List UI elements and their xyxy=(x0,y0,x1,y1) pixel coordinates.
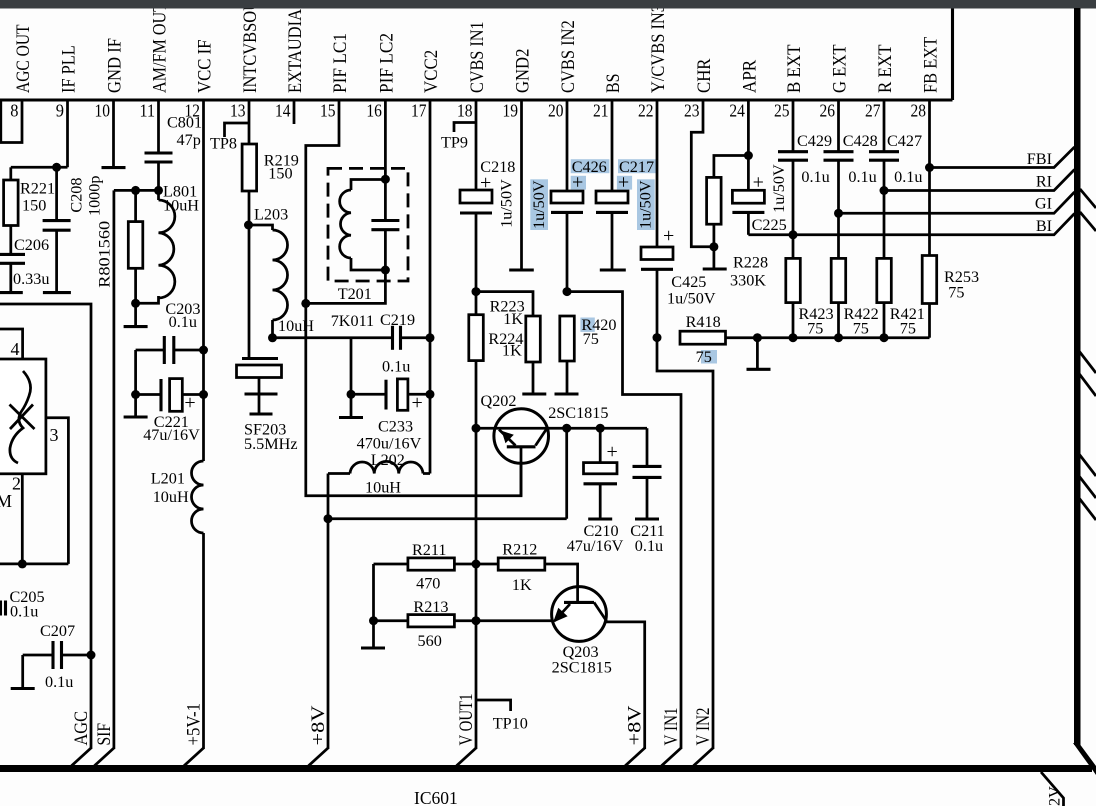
junction dot R228 bottom xyxy=(709,242,718,251)
svg-text:INTCVBSOUT: INTCVBSOUT xyxy=(240,0,261,93)
foot wire V IN2 xyxy=(694,748,714,766)
svg-text:0.1u: 0.1u xyxy=(382,358,410,376)
wire +8V to Q202 collector xyxy=(328,517,567,520)
pin 20 wire xyxy=(566,100,569,191)
wire to V IN2 xyxy=(657,338,713,749)
svg-text:14: 14 xyxy=(275,101,291,121)
pin 12 line mid xyxy=(202,350,205,461)
junction dot R211/R213 left xyxy=(369,616,378,625)
svg-text:C429: C429 xyxy=(797,132,832,150)
pin 25 wire B EXT xyxy=(792,100,795,152)
svg-text:2SC1815: 2SC1815 xyxy=(548,404,608,422)
foot wire SIF xyxy=(94,748,114,766)
pin 15 wire loop to Q202 base xyxy=(306,100,521,496)
junction dot R418 right xyxy=(753,333,762,342)
junction dot C210 top xyxy=(596,424,605,433)
svg-text:CVBS IN1: CVBS IN1 xyxy=(467,22,488,94)
pin 18 wire xyxy=(475,100,478,190)
ground C221 left xyxy=(134,395,137,416)
BI wire xyxy=(748,214,1074,235)
resistor R423 75 xyxy=(786,258,801,302)
svg-text:47u/16V: 47u/16V xyxy=(143,426,200,444)
ground C207 xyxy=(21,655,24,687)
junction dot Q202 emitter/pin18 xyxy=(472,424,481,433)
capacitor C208 1000p xyxy=(55,167,58,220)
Q203 collector stem xyxy=(576,586,579,602)
svg-text:19: 19 xyxy=(503,101,519,121)
foot wire +8V xyxy=(309,748,329,766)
pin 20 line below C426 xyxy=(566,212,569,291)
svg-text:10uH: 10uH xyxy=(163,197,199,215)
svg-text:C425: C425 xyxy=(671,273,706,291)
bus hatch group A xyxy=(1079,351,1096,373)
svg-text:0.1u: 0.1u xyxy=(848,168,876,186)
wire pin20 to V IN1 xyxy=(567,292,681,749)
svg-text:470u/16V: 470u/16V xyxy=(357,435,422,453)
pin 13 wire xyxy=(248,100,251,144)
Q203 emitter diagonal with arrow xyxy=(555,604,571,621)
svg-text:0.1u: 0.1u xyxy=(10,603,38,621)
svg-text:75: 75 xyxy=(807,320,823,338)
capacitor C429 0.1u xyxy=(778,150,808,153)
foot wire +8V xyxy=(625,748,645,766)
transformer T201 dashed enclosure xyxy=(328,168,408,281)
junction dot pin2/pin3 xyxy=(18,559,27,568)
svg-text:BI: BI xyxy=(1036,217,1052,235)
svg-text:Q202: Q202 xyxy=(481,392,517,410)
svg-text:75: 75 xyxy=(900,320,916,338)
svg-text:+8V: +8V xyxy=(626,705,646,746)
svg-text:13: 13 xyxy=(230,101,246,121)
svg-text:C206: C206 xyxy=(14,236,49,254)
svg-text:R EXT: R EXT xyxy=(875,44,896,93)
svg-text:+: + xyxy=(618,172,629,194)
svg-text:+8V: +8V xyxy=(309,705,329,746)
svg-text:47p: 47p xyxy=(177,131,201,149)
pin 22 wire xyxy=(656,100,659,247)
bus bottom thick diagonal xyxy=(1076,742,1096,769)
V OUT1 line TP10 xyxy=(476,700,511,711)
junction dot C207/AGC xyxy=(87,651,96,660)
pin 14 stub xyxy=(293,100,296,124)
top dark bar xyxy=(0,0,1096,9)
wire C203 left down to C221 xyxy=(134,350,137,395)
svg-text:IF PLL: IF PLL xyxy=(59,45,80,93)
Q203 base bar xyxy=(564,601,594,604)
svg-text:GND IF: GND IF xyxy=(105,38,126,93)
svg-text:10: 10 xyxy=(95,101,111,121)
Q203 collector diagonal xyxy=(594,602,607,621)
Q202 emitter diagonal with arrow xyxy=(499,430,516,446)
svg-text:+: + xyxy=(480,172,491,194)
pin 13 line to SF203 xyxy=(248,191,251,359)
test point TP8 xyxy=(225,123,250,137)
wire T201 bottom to pin15 line xyxy=(306,270,386,303)
inductor L801 10uH xyxy=(157,190,160,200)
foot wire V IN1 xyxy=(662,748,682,766)
resistor R228 330K xyxy=(714,156,749,178)
svg-text:AM/FM OUT: AM/FM OUT xyxy=(150,2,171,93)
pin 17 line xyxy=(429,100,432,474)
svg-text:V IN1: V IN1 xyxy=(662,708,682,746)
svg-text:GI: GI xyxy=(1035,195,1052,213)
capacitor C217 1u/50V (electrolytic) xyxy=(596,191,628,203)
pin 27 wire R EXT xyxy=(883,100,886,152)
inductor L203 10uH xyxy=(249,225,273,230)
svg-text:150: 150 xyxy=(268,165,292,183)
tuner box xyxy=(0,359,46,474)
svg-text:1000p: 1000p xyxy=(86,176,104,216)
svg-text:75: 75 xyxy=(583,330,599,348)
ground R228 xyxy=(713,247,716,268)
svg-text:25: 25 xyxy=(774,101,790,121)
svg-text:18: 18 xyxy=(457,101,473,121)
junction dot +8V rail xyxy=(324,514,333,523)
resistor R253 75 xyxy=(922,256,937,304)
junction dot C219/pin17 xyxy=(426,333,435,342)
junction dot rail/R423 xyxy=(789,333,798,342)
svg-text:24: 24 xyxy=(729,101,745,121)
svg-text:EXTAUDIA: EXTAUDIA xyxy=(285,9,306,93)
svg-text:B EXT: B EXT xyxy=(784,44,805,93)
svg-text:M: M xyxy=(0,491,12,511)
resistor R219 150 xyxy=(242,144,257,191)
resistor R420 75 xyxy=(560,316,575,361)
tuner pin2 wire xyxy=(21,474,24,564)
svg-text:SIF: SIF xyxy=(95,723,115,746)
svg-text:T201: T201 xyxy=(338,285,372,303)
junction dot C203 right xyxy=(199,346,208,355)
svg-text:17: 17 xyxy=(411,101,427,121)
svg-text:G EXT: G EXT xyxy=(830,44,851,93)
SIF wire xyxy=(113,190,116,749)
pin 18 line below C218 xyxy=(475,213,478,292)
svg-text:L203: L203 xyxy=(254,206,288,224)
capacitor C801 47p xyxy=(157,100,160,153)
svg-text:C801: C801 xyxy=(167,114,202,132)
svg-text:4: 4 xyxy=(11,339,20,359)
RI wire xyxy=(884,170,1075,191)
pin 24 wire APR xyxy=(747,100,750,156)
junction dot C208 top xyxy=(52,163,61,172)
Q202 base bar xyxy=(507,445,536,448)
svg-text:GND2: GND2 xyxy=(513,49,534,93)
capacitor C428 0.1u xyxy=(824,150,854,153)
pin 12 line lower (+5V-1) xyxy=(202,533,205,749)
bus hatch group B xyxy=(1079,454,1096,476)
svg-text:R801560: R801560 xyxy=(95,221,113,288)
svg-text:1u/50V: 1u/50V xyxy=(667,290,716,308)
svg-text:0.33u: 0.33u xyxy=(13,270,49,288)
junction dot R801 top xyxy=(131,186,140,195)
svg-text:APR: APR xyxy=(739,60,760,93)
highlight C426 xyxy=(571,159,610,173)
svg-text:1K: 1K xyxy=(503,310,523,328)
T201 bottom junction dot xyxy=(381,266,390,275)
junction dot RI/pin27 xyxy=(880,186,889,195)
wire L203 to C219 xyxy=(273,336,392,339)
junction dot L203 top xyxy=(244,221,253,230)
capacitor C427 0.1u xyxy=(869,150,899,153)
svg-text:1u/50V: 1u/50V xyxy=(530,180,548,229)
capacitor C207 0.1u xyxy=(23,654,52,657)
pin 21 wire xyxy=(611,100,614,191)
svg-text:R221: R221 xyxy=(20,180,55,198)
+8V left rail xyxy=(327,474,330,750)
svg-text:VCC2: VCC2 xyxy=(421,50,442,93)
test point TP9 xyxy=(454,123,476,133)
GI continuation diagonal xyxy=(1080,212,1096,231)
svg-text:R211: R211 xyxy=(412,541,446,559)
junction dot L801 top xyxy=(154,186,163,195)
pin 23 wire CHR xyxy=(691,100,714,247)
svg-text:+: + xyxy=(607,441,618,463)
svg-text:0.1u: 0.1u xyxy=(635,537,663,555)
T201 top junction dot xyxy=(381,175,390,184)
resistor R221 xyxy=(9,167,12,180)
Q202 base stem to pin15 wire xyxy=(520,447,523,497)
svg-text:+: + xyxy=(412,392,423,414)
svg-text:TP10: TP10 xyxy=(493,715,528,733)
junction dot GI/pin26 xyxy=(834,209,843,218)
wire node across R221/C208 (y=167) xyxy=(11,166,68,169)
svg-text:L201: L201 xyxy=(151,470,185,488)
resistor R224 1K xyxy=(476,292,533,316)
svg-text:75: 75 xyxy=(948,284,964,302)
tuner box internal squiggle xyxy=(10,371,31,463)
svg-text:PIF LC2: PIF LC2 xyxy=(376,33,397,93)
svg-text:+: + xyxy=(572,172,583,194)
svg-text:1u/50V: 1u/50V xyxy=(770,164,788,213)
junction dot C221 right xyxy=(199,390,208,399)
pin 19 ground stub xyxy=(520,100,523,269)
svg-text:560: 560 xyxy=(418,632,442,650)
T201 coil winding xyxy=(351,180,385,191)
junction dot pin24 xyxy=(744,151,753,160)
junction dot Q202 collector node xyxy=(562,424,571,433)
svg-text:AGC: AGC xyxy=(72,711,92,746)
svg-text:C233: C233 xyxy=(378,418,413,436)
foot wire +5V-1 xyxy=(184,748,204,766)
svg-text:TP9: TP9 xyxy=(441,134,468,152)
svg-text:10uH: 10uH xyxy=(365,479,401,497)
Q203 base wire xyxy=(476,619,553,622)
Q202 emitter/collector wire xyxy=(476,427,647,430)
svg-text:75: 75 xyxy=(696,348,712,366)
pin 16 wire xyxy=(384,100,387,179)
FBI wire xyxy=(930,147,1075,168)
svg-text:C427: C427 xyxy=(887,132,922,150)
pin 28 wire FB EXT xyxy=(928,100,931,256)
svg-text:V IN2: V IN2 xyxy=(694,708,714,746)
svg-text:75: 75 xyxy=(853,320,869,338)
ground C217 xyxy=(611,212,614,268)
IC601 top-right corner edge xyxy=(951,7,954,100)
capacitor C425 1u/50V (electrolytic) xyxy=(641,247,673,260)
svg-text:20: 20 xyxy=(548,101,564,121)
resistor R223 1K xyxy=(469,315,484,361)
svg-text:8: 8 xyxy=(10,101,18,121)
svg-text:330K: 330K xyxy=(730,272,766,290)
resistor R422 75 xyxy=(831,258,846,302)
svg-text:C219: C219 xyxy=(380,311,415,329)
pin 12 line upper xyxy=(202,100,205,350)
junction dot R213/pin18 xyxy=(472,616,481,625)
svg-text:IC601: IC601 xyxy=(414,788,458,806)
pin 26 wire G EXT xyxy=(837,100,840,152)
svg-text:C428: C428 xyxy=(843,132,878,150)
svg-text:10uH: 10uH xyxy=(278,317,314,335)
svg-text:1K: 1K xyxy=(502,342,522,360)
svg-text:R228: R228 xyxy=(733,254,768,272)
foot wire V OUT1 xyxy=(457,748,477,766)
svg-text:2: 2 xyxy=(12,474,21,494)
capacitor C426 1u/50V (electrolytic) xyxy=(551,191,583,203)
capacitor C218 1u/50V (electrolytic) xyxy=(460,190,492,203)
svg-text:26: 26 xyxy=(820,101,836,121)
pin 7 stub at left edge xyxy=(0,100,2,143)
ceramic filter SF203 5.5MHz xyxy=(242,357,278,360)
pin 9 wire xyxy=(66,100,69,167)
svg-text:1K: 1K xyxy=(512,576,532,594)
wire C225 to BI line xyxy=(747,212,750,234)
svg-text:23: 23 xyxy=(684,101,700,121)
svg-text:+: + xyxy=(753,172,764,194)
Q202 collector diagonal xyxy=(536,429,547,446)
junction dot R801 bottom xyxy=(131,299,140,308)
svg-text:7K011: 7K011 xyxy=(331,312,374,330)
svg-text:0.1u: 0.1u xyxy=(894,168,922,186)
highlight C217 xyxy=(618,159,657,173)
svg-text:C225: C225 xyxy=(752,216,787,234)
wire L801 bottom to R801 bottom xyxy=(136,296,159,303)
svg-text:3: 3 xyxy=(50,425,59,445)
svg-text:5.5MHz: 5.5MHz xyxy=(244,435,298,453)
RI continuation diagonal xyxy=(1080,189,1096,208)
svg-text:10uH: 10uH xyxy=(153,488,189,506)
AGC wire xyxy=(0,304,91,749)
svg-text:+: + xyxy=(663,225,674,247)
svg-text:Y/CVBS IN3: Y/CVBS IN3 xyxy=(648,4,669,93)
tuner pin3 wire xyxy=(46,418,69,564)
resistor R421 75 xyxy=(877,258,892,302)
junction dot rail/R421 xyxy=(880,333,889,342)
svg-text:0.1u: 0.1u xyxy=(169,313,197,331)
svg-text:1u/50V: 1u/50V xyxy=(498,179,516,228)
svg-text:11: 11 xyxy=(140,101,156,121)
svg-text:PIF LC1: PIF LC1 xyxy=(330,33,351,93)
svg-text:1u/50V: 1u/50V xyxy=(637,180,655,229)
svg-text:0.1u: 0.1u xyxy=(45,673,73,691)
junction dot C221 left xyxy=(131,390,140,399)
tuner box pin4 wire xyxy=(0,329,23,359)
bus thick vertical line xyxy=(1074,8,1081,745)
svg-text:TP8: TP8 xyxy=(210,135,237,153)
svg-text:AGC OUT: AGC OUT xyxy=(13,24,34,93)
junction dot R418 left xyxy=(653,333,662,342)
pin 10 ground stub xyxy=(112,100,115,166)
IC601 top edge pin row xyxy=(0,98,953,101)
resistor R801 560 xyxy=(134,190,137,221)
junction dot C233/pin17 xyxy=(426,390,435,399)
svg-text:0.1u: 0.1u xyxy=(801,168,829,186)
capacitor C206 0.33u xyxy=(0,253,25,256)
svg-text:+5V-1: +5V-1 xyxy=(185,703,205,746)
left bias rail + ground xyxy=(372,564,375,647)
svg-text:470: 470 xyxy=(416,575,440,593)
svg-text:R212: R212 xyxy=(502,541,537,559)
svg-text:R418: R418 xyxy=(686,313,721,331)
svg-text:2V: 2V xyxy=(1046,786,1064,806)
ground R801 xyxy=(134,303,137,325)
bottom node wire (to C205) xyxy=(0,563,68,566)
svg-text:28: 28 xyxy=(911,101,927,121)
svg-text:16: 16 xyxy=(366,101,382,121)
svg-text:RI: RI xyxy=(1036,173,1052,191)
wire C219 left down to C233 xyxy=(350,338,353,395)
bottom-right +12V wire xyxy=(1041,772,1064,806)
svg-text:+: + xyxy=(184,392,195,414)
junction dot R211/R212/pin18 xyxy=(472,560,481,569)
svg-text:CVBS IN2: CVBS IN2 xyxy=(558,20,579,93)
IC601 bottom bar xyxy=(0,765,1092,772)
tuner box internal X xyxy=(10,405,35,430)
node wire pin11 to SIF corner xyxy=(114,189,159,192)
GI wire xyxy=(839,192,1075,213)
svg-text:BS: BS xyxy=(603,74,624,94)
junction dot pin20/R420 xyxy=(563,287,572,296)
T201 internal capacitor xyxy=(384,179,387,220)
svg-text:V OUT1: V OUT1 xyxy=(457,694,477,746)
wire C425 to R418 node xyxy=(656,269,659,337)
capacitor C211 0.1u xyxy=(646,428,649,466)
wire collector down to +8V rail wire xyxy=(565,428,568,519)
svg-text:27: 27 xyxy=(865,101,881,121)
svg-text:VCC IF: VCC IF xyxy=(195,40,216,94)
junction dot L203 bottom xyxy=(268,333,277,342)
svg-text:9: 9 xyxy=(56,101,64,121)
junction dot rail/R422 xyxy=(834,333,843,342)
junction dot BI/pin25 xyxy=(789,230,798,239)
svg-text:C208: C208 xyxy=(68,178,86,213)
ground C233 left xyxy=(350,394,353,416)
svg-text:15: 15 xyxy=(320,101,336,121)
pin 8 wire to left edge xyxy=(0,100,22,143)
capacitor C233 470u/16V (electrolytic) xyxy=(351,393,386,396)
svg-text:150: 150 xyxy=(22,197,46,215)
svg-text:C207: C207 xyxy=(40,622,75,640)
svg-text:21: 21 xyxy=(593,101,609,121)
capacitor C225 1u/50V (electrolytic) xyxy=(747,156,750,191)
capacitor C203 0.1u xyxy=(136,349,164,352)
ground R418 xyxy=(756,338,759,368)
capacitor C205 0.1u (edge) xyxy=(0,601,2,616)
svg-text:22: 22 xyxy=(638,101,654,121)
junction dot C233 left xyxy=(347,390,356,399)
capacitor C221 47u/16V (electrolytic) xyxy=(136,393,160,396)
foot wire AGC xyxy=(72,748,92,766)
svg-text:FBI: FBI xyxy=(1027,150,1052,168)
transistor Q203 2SC1815 xyxy=(552,587,607,642)
svg-text:FB EXT: FB EXT xyxy=(921,37,942,93)
junction dot FBI/pin28 xyxy=(925,163,934,172)
inductor L201 10uH xyxy=(192,461,204,533)
junction dot pin18/R223 xyxy=(472,287,481,296)
svg-text:CHR: CHR xyxy=(694,58,715,93)
Q203 collector wire to +8V foot xyxy=(606,622,645,749)
pin18 line R223 section xyxy=(475,292,478,749)
ground rail to RGB resistors xyxy=(757,336,929,339)
